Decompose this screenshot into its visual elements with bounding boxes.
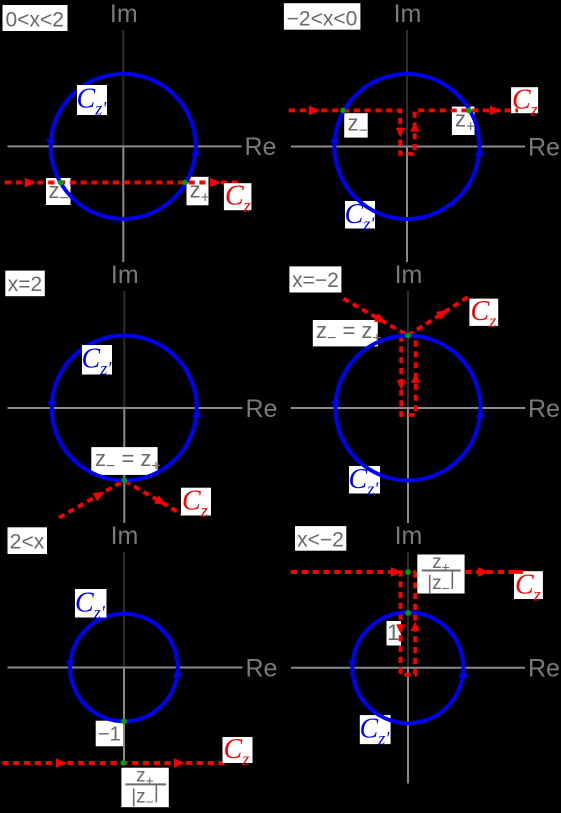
panel 2: z_plus label box	[452, 107, 475, 135]
panel 2: blue circle C_z'	[335, 74, 480, 219]
panel 4: red dashed contour C_z (inverted V at circle top with detour)	[344, 299, 408, 336]
panel 1: red dashed contour C_z (horizontal line below Re axis)	[5, 181, 240, 185]
panel 6: red dashed contour C_z (horizontal line above circle with detour)	[291, 572, 440, 675]
panel 2: Re axis	[291, 146, 525, 148]
panel 2: green node z_plus	[466, 108, 472, 114]
svg-text:x=−2: x=−2	[292, 269, 339, 292]
svg-text:Im: Im	[110, 0, 138, 28]
panel 5: Re axis	[8, 667, 243, 669]
panel 4: Re axis	[291, 407, 525, 409]
panel 6: green node at circle top	[405, 610, 411, 616]
panel 6 circle left arrow	[348, 661, 357, 669]
panel 2: z_minus label box	[344, 113, 368, 137]
panel 5: blue circle C_z'	[70, 614, 178, 722]
svg-text:Re: Re	[245, 133, 277, 161]
panel 3 circle left arrow	[47, 401, 56, 409]
panel 4: blue circle C_z'	[336, 336, 481, 481]
panel 4: green node z_minus = z_plus	[405, 333, 411, 339]
panel 4: C_z label box	[469, 299, 498, 326]
panel 6: Im axis (upper dark segment)	[407, 552, 409, 668]
panel 1: green node z_minus	[58, 180, 64, 186]
svg-text:z−​ = z+​: z−​ = z+​	[95, 446, 161, 475]
panel 6: title box	[295, 526, 346, 551]
panel 6: red dashed contour right segment (over fraction box)	[465, 570, 523, 574]
panel 2: C_z' label box	[345, 201, 375, 229]
panel 2 detour up arrow	[410, 122, 419, 132]
svg-text:Im: Im	[394, 0, 422, 28]
panel 5 circle right arrow	[173, 669, 182, 677]
panel 4 C_z arrow incoming	[374, 313, 388, 327]
svg-text:Im: Im	[111, 522, 139, 550]
panel 5: red dashed contour C_z (horizontal line below circle)	[3, 761, 230, 765]
panel 3: green node z_minus = z_plus	[121, 478, 127, 484]
panel 6: green node on contour at Im axis	[405, 569, 411, 575]
panel 1: z_plus label box	[187, 177, 209, 206]
svg-text:2<x: 2<x	[10, 530, 45, 553]
panel 1 circle right arrow	[191, 147, 200, 155]
svg-text:Im: Im	[111, 261, 139, 289]
panel 6 C_z arrow right	[478, 567, 489, 577]
svg-text:−2<x<0: −2<x<0	[287, 7, 358, 30]
panel 2 C_z arrow left	[309, 106, 320, 116]
panel 5: green node -1 at circle bottom	[121, 718, 127, 724]
panel 4 circle right arrow	[476, 409, 485, 417]
svg-text:Im: Im	[395, 522, 423, 550]
panel 6: 1 label box	[387, 621, 402, 646]
svg-text:Re: Re	[246, 395, 278, 423]
panel 1: Im axis (upper dark segment)	[122, 30, 124, 146]
panel 2: red dashed contour C_z with detour around origin	[289, 110, 518, 153]
panel 1: z_minus label box	[46, 178, 71, 205]
panel 5: green node on contour	[121, 760, 127, 766]
svg-text:Re: Re	[246, 654, 278, 682]
panel 1: title box	[3, 5, 68, 31]
panel 2: green node z_minus	[340, 108, 346, 114]
panel 6: Re axis	[291, 667, 525, 669]
svg-text:z−​ = z+​: z−​ = z+​	[316, 318, 382, 347]
panel 2: C_z label box	[511, 87, 538, 113]
panel 3: Re axis	[8, 407, 243, 409]
panel 1 C_z arrow right	[210, 178, 221, 188]
panel 6 detour up arrow	[411, 621, 420, 631]
panel 1: green node z_plus	[182, 180, 188, 186]
panel 5 C_z arrow right	[174, 758, 185, 768]
panel 3: title box	[5, 271, 45, 297]
svg-text:Re: Re	[528, 395, 560, 423]
panel 4: Im axis (lower segment)	[407, 408, 409, 523]
panel 6 circle right arrow	[459, 669, 468, 677]
panel 5: title box	[8, 527, 48, 554]
panel 3 C_z arrow incoming	[93, 488, 107, 502]
panel 4 circle left arrow	[331, 401, 340, 409]
panel 6: blue circle C_z'	[353, 612, 464, 723]
svg-text:x=2: x=2	[8, 273, 42, 296]
panel 4 detour up arrow	[411, 373, 420, 383]
panel 4: C_z' label box	[349, 466, 380, 494]
panel 3 circle right arrow	[192, 409, 201, 417]
panel 2 C_z arrow right	[490, 106, 501, 116]
panel 5: z_plus/|z_minus| fraction label box	[121, 768, 168, 808]
panel 5: Im axis (upper dark segment)	[123, 552, 125, 668]
panel 5 C_z arrow left	[56, 758, 67, 768]
panel 4: title box	[289, 266, 341, 292]
panel 6 detour down arrow	[396, 624, 405, 634]
panel 4: z_minus = z_plus label box	[313, 320, 378, 346]
panel 4: Im axis (upper dark segment)	[407, 291, 409, 408]
panel 2 detour down arrow	[396, 128, 405, 138]
panel 6: Im axis (lower segment)	[407, 668, 409, 784]
panel 6: C_z label box	[514, 571, 543, 599]
panel 5: C_z' label box	[75, 589, 107, 618]
svg-text:0<x<2: 0<x<2	[6, 8, 64, 31]
svg-text:Im: Im	[395, 261, 423, 289]
panel 5: Im axis (lower segment)	[123, 668, 125, 764]
panel 6: red dash over C_z box corner	[514, 570, 523, 574]
svg-text:Re: Re	[528, 655, 560, 683]
panel 4 detour down arrow	[397, 380, 406, 390]
panel 5: -1 label box	[96, 721, 125, 747]
panel 3: z_minus = z_plus label box	[91, 447, 157, 475]
panel 3: blue circle C_z'	[52, 336, 197, 481]
svg-text:−1: −1	[98, 723, 121, 745]
panel 6 C_z arrow left	[391, 567, 402, 577]
panel 3: C_z label box	[181, 488, 211, 516]
panel 1: C_z label box	[224, 183, 252, 210]
panel 4 C_z arrow outgoing	[436, 306, 450, 320]
panel 2: Im axis (lower segment)	[406, 147, 408, 263]
panel 1 circle left arrow	[46, 140, 55, 148]
panel 1: blue circle C_z'	[51, 74, 196, 219]
panel 1: Im axis (lower segment)	[122, 146, 124, 262]
panel 6: z_plus/|z_minus| fraction label box	[417, 555, 464, 594]
svg-text:x<−2: x<−2	[297, 528, 344, 551]
panel 5: C_z label box	[223, 737, 253, 763]
panel 2: Im axis (upper dark segment)	[406, 30, 408, 147]
panel 3: Im axis (upper dark segment)	[123, 291, 125, 408]
panel 3: Im axis (lower segment)	[123, 408, 125, 523]
panel 1 C_z arrow left	[25, 178, 36, 188]
panel 2: title box	[284, 3, 361, 30]
panel 2 circle left arrow	[330, 140, 339, 148]
panel 3: C_z' label box	[82, 345, 112, 375]
panel 6: C_z' label box	[360, 715, 391, 744]
panel 2 circle right arrow	[475, 148, 484, 156]
panel 1: Re axis	[8, 145, 242, 147]
svg-text:1: 1	[387, 620, 400, 645]
panel 3: red dashed contour C_z (V shape meeting at circle bottom)	[59, 481, 182, 518]
panel 3 C_z arrow outgoing	[154, 495, 168, 509]
svg-text:Re: Re	[528, 133, 560, 161]
panel 1: C_z' label box	[77, 85, 107, 115]
panel 5 circle left arrow	[66, 661, 75, 669]
